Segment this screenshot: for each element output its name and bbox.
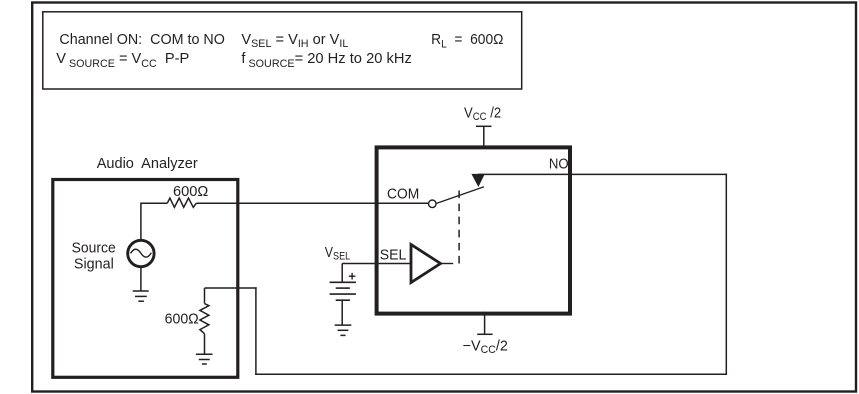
wire: NO output to right <box>478 173 727 175</box>
switch arrow contact (NO) <box>471 174 484 187</box>
wire: buffer output to dashed line <box>441 263 453 265</box>
wire: to R2 top <box>205 287 257 289</box>
ground (VSEL battery) <box>335 325 352 335</box>
svg-text:SEL: SEL <box>380 247 407 264</box>
svg-text:NO: NO <box>549 155 569 172</box>
buffer driver U1a (triangle) <box>411 245 441 283</box>
wire: source bottom to ground <box>140 267 142 291</box>
wire: bottom return run <box>255 373 727 375</box>
svg-text:Signal: Signal <box>74 256 114 272</box>
wire: right vertical drop <box>725 174 727 375</box>
switch IC box <box>377 147 570 313</box>
svg-text:600Ω: 600Ω <box>173 184 208 200</box>
svg-text:Channel ON: COM to NO: Channel ON: COM to NO <box>59 32 224 48</box>
svg-text:Source: Source <box>72 240 116 257</box>
node: COM contact circle <box>429 200 437 208</box>
ground (load) <box>196 354 213 364</box>
ground (source) <box>133 291 149 301</box>
dashed control line <box>458 191 460 264</box>
audio analyzer box <box>53 180 238 378</box>
resistor R2 600 ohm (load) <box>200 288 209 354</box>
switch arm <box>437 187 485 204</box>
battery plus sign <box>349 273 356 280</box>
conditions note box <box>43 12 522 89</box>
wire: SEL input <box>342 263 411 265</box>
power terminal -VCC/2 <box>477 312 492 335</box>
wire: R1 to COM contact <box>196 202 428 204</box>
wire: source top to resistor R1 <box>141 203 167 239</box>
resistor R1 600 ohm (series) <box>167 198 196 207</box>
power terminal VCC/2 <box>476 126 492 149</box>
battery VSEL source <box>330 264 356 326</box>
svg-text:600Ω: 600Ω <box>165 311 199 327</box>
source V1 sine generator <box>128 240 154 266</box>
svg-text:COM: COM <box>387 186 419 203</box>
svg-text:Audio Analyzer: Audio Analyzer <box>97 156 198 172</box>
wire: riser to load resistor <box>255 287 257 375</box>
